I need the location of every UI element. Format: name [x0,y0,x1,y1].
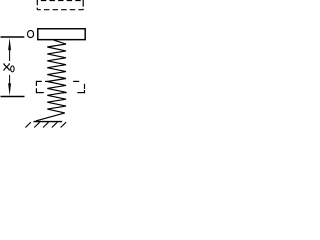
dashed block position middle (phantom at spring top) [36,81,84,93]
spring (zigzag coil) [36,40,66,121]
label x0 (x glyph strokes) [3,64,10,70]
bottom edge dashes [36,92,43,94]
dashed block position top (phantom, cut off at top edge) [37,0,83,10]
label O (origin) [28,31,34,38]
ground line [33,121,62,123]
dimension arrow up [8,38,11,51]
right edge dashes [84,84,86,89]
top edge dashes [36,80,41,82]
tick bottom (natural length level) [1,95,25,97]
left edge dashes [35,81,37,86]
ground hatching [25,122,66,127]
block M (solid rectangle) [38,29,85,40]
tick top (origin level) [1,36,25,38]
label x0 (subscript 0 glyph) [11,66,15,72]
dimension arrow down [9,75,11,86]
